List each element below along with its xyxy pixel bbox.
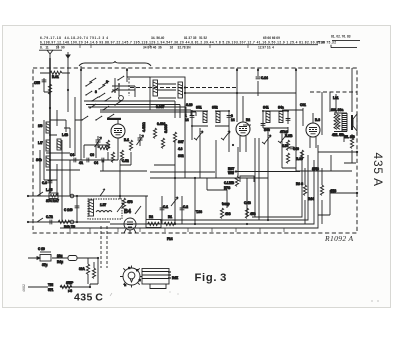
svg-text:S81 S8a: S81 S8a <box>331 108 343 112</box>
svg-text:S.09S: S.09S <box>164 124 168 133</box>
tube stems <box>107 118 121 120</box>
svg-text:77.38: 77.38 <box>317 40 325 44</box>
resistors R44/4HS lower right <box>303 185 306 195</box>
svg-text:C.2: C.2 <box>183 205 188 209</box>
svg-text:R4Z: R4Z <box>172 276 178 280</box>
svg-text:43S: 43S <box>225 212 231 216</box>
svg-text:R7S: R7S <box>224 186 230 190</box>
svg-text:R1092 A: R1092 A <box>324 234 353 243</box>
left in/out wires <box>28 195 148 197</box>
trimmer arrows near B4 <box>117 203 141 214</box>
svg-text:C.43: C.43 <box>244 201 251 205</box>
bundle from switch to coils <box>84 101 196 118</box>
svg-text:20μ: 20μ <box>57 254 63 258</box>
vertical from top border into switch <box>126 68 128 82</box>
svg-text:9.0S7: 9.0S7 <box>156 105 165 109</box>
dash-dot in switch <box>128 78 130 96</box>
svg-text:C40: C40 <box>293 147 299 151</box>
verticals lower <box>76 196 78 222</box>
svg-text:r-8: r-8 <box>68 289 72 293</box>
svg-text:C.52: C.52 <box>122 159 129 163</box>
svg-text:WL S/6: WL S/6 <box>344 135 355 139</box>
resistor SWP <box>60 285 72 288</box>
svg-text:37μ: 37μ <box>42 263 48 267</box>
capacitor C55 <box>42 80 47 82</box>
svg-text:435 A: 435 A <box>371 153 385 187</box>
antenna symbol <box>47 50 53 58</box>
svg-text:R.81: R.81 <box>52 75 59 79</box>
svg-text:L.05: L.05 <box>46 188 53 192</box>
tube B3 <box>306 123 320 137</box>
svg-text:C81: C81 <box>300 103 306 107</box>
svg-text:65 66 66 69: 65 66 66 69 <box>263 36 280 40</box>
svg-text:S4a: S4a <box>278 106 284 110</box>
svg-text:L/7: L/7 <box>38 141 43 145</box>
svg-text:WW: WW <box>228 171 234 175</box>
svg-text:6.198.97.12.148.100.20 24.14.6: 6.198.97.12.148.100.20 24.14.6 93.88.97.… <box>40 40 336 44</box>
svg-text:S4b: S4b <box>264 128 270 132</box>
switches S74/R6b on input wires <box>70 194 74 198</box>
svg-text:B.3: B.3 <box>315 118 320 122</box>
wire TRI input <box>28 286 90 288</box>
svg-text:R1: R1 <box>168 215 172 219</box>
caps row wire <box>50 159 118 161</box>
dashed enclosure border <box>33 68 357 233</box>
svg-text:L4B: L4B <box>62 133 69 137</box>
resistor R1 <box>164 222 176 225</box>
junction dots <box>49 107 51 109</box>
svg-text:14: 14 <box>185 118 189 122</box>
transformer T1 (audio) <box>88 199 122 219</box>
svg-text:C.9: C.9 <box>42 181 47 185</box>
svg-text:81 37 35 51 52: 81 37 35 51 52 <box>184 36 207 40</box>
tube B1 <box>111 124 125 138</box>
svg-text:12.97 10. 4: 12.97 10. 4 <box>258 45 274 49</box>
svg-text:R44: R44 <box>308 197 314 201</box>
resistors 43S/45S <box>220 208 223 218</box>
svg-text:B4: B4 <box>124 209 131 215</box>
svg-text:571: 571 <box>48 288 54 292</box>
antenna feed vertical <box>49 58 51 193</box>
resistors/capacitor C40 right of B3 <box>286 140 289 150</box>
resistor 47S above B4 <box>122 198 125 208</box>
mid horizontals <box>150 171 300 174</box>
resistor R82 (antenna shunt) <box>48 84 51 94</box>
stage coupling wires <box>192 111 229 126</box>
svg-text:C 140: C 140 <box>64 208 73 212</box>
svg-text:L81: L81 <box>333 96 339 100</box>
svg-text:C.LMB: C.LMB <box>224 181 235 185</box>
switch S1 rotary contact bank <box>89 78 96 83</box>
svg-text:2: 2 <box>106 80 108 84</box>
svg-text:SWP: SWP <box>66 281 74 285</box>
tube side view with base <box>142 269 169 285</box>
svg-text:4ML 5/6: 4ML 5/6 <box>332 133 344 137</box>
switch bank rail <box>80 66 82 160</box>
svg-text:C.72: C.72 <box>46 215 53 219</box>
svg-text:R2: R2 <box>149 215 153 219</box>
resistors 32A voltage divider <box>86 264 89 274</box>
tube B2 <box>236 122 250 136</box>
svg-text:C55: C55 <box>34 81 40 85</box>
svg-text:temp: temp <box>222 202 230 206</box>
svg-text:81. 02. 76. 83: 81. 02. 76. 83 <box>331 35 351 39</box>
svg-text:S.10: S.10 <box>186 103 193 107</box>
capacitors C1/C2 <box>160 208 165 210</box>
svg-text:4.4MΩ: 4.4MΩ <box>142 122 146 132</box>
svg-text:C4: C4 <box>94 161 98 165</box>
svg-text:14: 14 <box>231 118 235 122</box>
left routing verticals <box>39 150 41 196</box>
transformer L1 oscillator coil box <box>150 77 185 110</box>
switch right side nested <box>112 86 135 97</box>
svg-text:B.1: B.1 <box>124 138 129 142</box>
svg-text:S74 RA7: S74 RA7 <box>46 199 59 203</box>
svg-text:4.8: 4.8 <box>178 147 183 151</box>
resistors below tube B1 <box>106 140 109 150</box>
svg-text:R6b TR: R6b TR <box>64 225 76 229</box>
svg-text:S/4S: S/4S <box>312 167 319 171</box>
svg-text:4A: 4A <box>79 161 84 165</box>
svg-text:8: 8 <box>95 90 97 94</box>
wires (dashed) to 435C unit <box>100 226 102 268</box>
resistor R81 <box>50 71 62 74</box>
svg-text:R.30: R.30 <box>296 157 303 161</box>
svg-text:1/6: 1/6 <box>38 124 43 128</box>
svg-text:435 C: 435 C <box>74 292 103 304</box>
svg-text:4682: 4682 <box>22 284 26 292</box>
ground stem <box>67 58 69 112</box>
resistors S37/4.8/S32 <box>161 138 164 148</box>
svg-text:C.14: C.14 <box>261 76 268 80</box>
svg-text:8. 11 16 90: 8. 11 16 90 <box>40 45 65 49</box>
svg-text:TRI: TRI <box>48 283 53 287</box>
brace over switch section <box>79 61 151 66</box>
svg-text:6-79-17-18 44-18-20-74 751-2: 6-79-17-18 44-18-20-74 751-2 3 4 <box>40 36 108 40</box>
svg-text:C 10: C 10 <box>38 247 45 251</box>
svg-text:Fig. 3: Fig. 3 <box>195 272 228 284</box>
trimmer capacitors near B1 <box>95 136 102 148</box>
svg-text:C.1: C.1 <box>163 205 168 209</box>
left small branch <box>40 73 70 92</box>
svg-text:34. 56.40: 34. 56.40 <box>151 36 165 40</box>
svg-text:45S: 45S <box>250 212 256 216</box>
svg-text:S51: S51 <box>196 106 202 110</box>
verticals mid <box>184 87 186 178</box>
svg-text:S41: S41 <box>263 106 269 110</box>
coils 1/6, L/7, S4b antenna section <box>46 122 50 133</box>
svg-text:B2: B2 <box>246 118 250 122</box>
svg-text:R4μ: R4μ <box>57 260 63 264</box>
svg-text:S4b: S4b <box>36 158 42 162</box>
svg-text:T.08: T.08 <box>196 210 202 214</box>
ground arrow <box>66 52 70 58</box>
svg-text:4HS: 4HS <box>330 189 336 193</box>
svg-text:C4: C4 <box>70 153 74 157</box>
horizontal mid-bus <box>184 92 296 94</box>
svg-text:S37: S37 <box>178 140 184 144</box>
svg-text:S32: S32 <box>178 154 184 158</box>
resistor (speaker shunt) <box>350 138 353 148</box>
wire to border right <box>318 151 357 153</box>
svg-text:4.50: 4.50 <box>282 144 288 148</box>
svg-text:F14: F14 <box>167 237 173 241</box>
wire stubs to chassis border <box>70 228 284 232</box>
specks <box>371 300 372 301</box>
svg-text:S.SB: S.SB <box>285 134 293 138</box>
svg-text:R6 S: R6 S <box>296 182 303 186</box>
resistor R2 <box>146 220 161 228</box>
capacitors C4/C6 series row <box>74 158 76 163</box>
svg-text:S52: S52 <box>212 106 218 110</box>
tube socket bottom view <box>123 268 140 285</box>
svg-text:C6: C6 <box>90 153 94 157</box>
resistor R4 (oval) <box>68 256 77 261</box>
svg-text:1.57: 1.57 <box>100 203 106 207</box>
svg-text:32A: 32A <box>79 267 86 271</box>
bottom nested bus lines <box>252 152 302 217</box>
svg-text:47S: 47S <box>127 200 133 204</box>
capacitor C14 <box>256 77 261 79</box>
